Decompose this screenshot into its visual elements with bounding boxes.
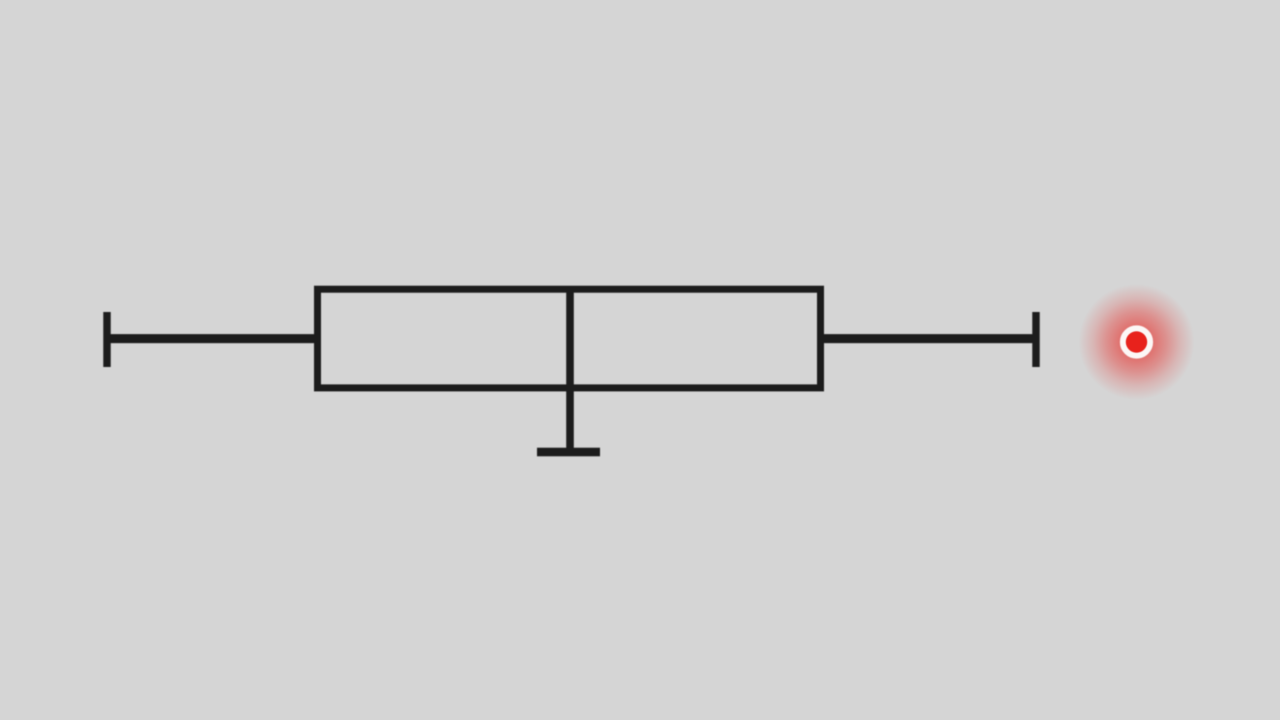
white ring of indicator	[1123, 329, 1150, 356]
red dot of indicator	[1126, 331, 1147, 352]
right whisker	[820, 334, 1036, 343]
bottom cap of median stem	[537, 448, 600, 456]
left whisker	[104, 334, 318, 343]
right whisker cap	[1032, 312, 1039, 367]
IQR box	[318, 289, 821, 388]
median line with stem below box	[566, 286, 574, 455]
left whisker cap	[103, 312, 110, 367]
red glow around indicator	[1079, 284, 1195, 400]
